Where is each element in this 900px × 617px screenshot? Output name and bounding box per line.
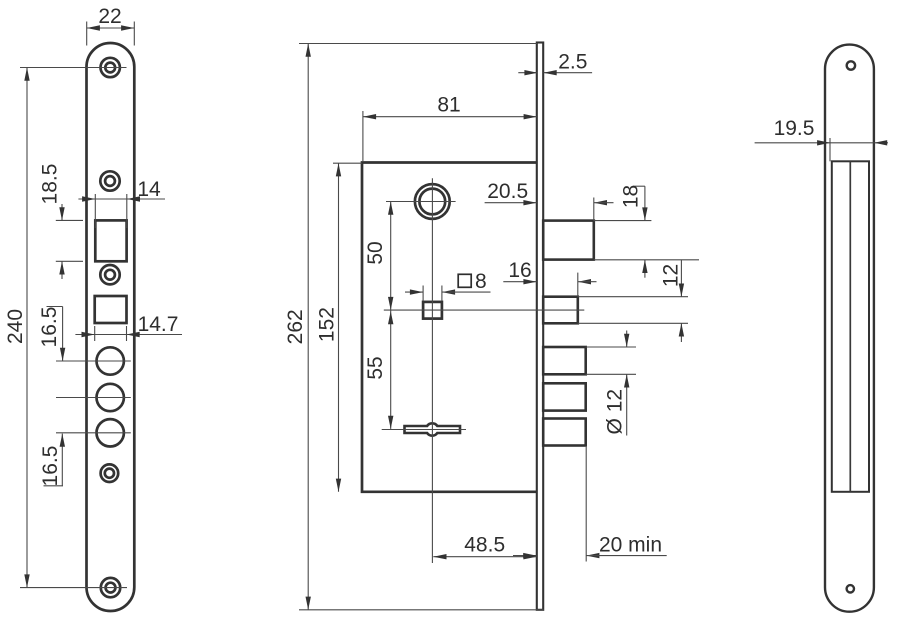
recess middle line xyxy=(849,161,851,492)
dim 16.5 upper xyxy=(47,306,63,308)
lock case recess xyxy=(832,161,869,492)
spindle centerline xyxy=(384,309,585,311)
svg-text:262: 262 xyxy=(284,309,307,344)
svg-text:152: 152 xyxy=(315,307,338,342)
key slot xyxy=(405,423,461,435)
svg-text:16: 16 xyxy=(508,259,531,282)
dim 2.5 xyxy=(518,72,537,74)
svg-text:18: 18 xyxy=(620,185,643,208)
dim 12 xyxy=(578,296,688,298)
svg-text:8: 8 xyxy=(475,270,487,293)
svg-text:12: 12 xyxy=(660,264,683,287)
dim 14.7 xyxy=(94,326,96,341)
svg-text:20.5: 20.5 xyxy=(487,180,528,203)
svg-text:22: 22 xyxy=(98,5,121,28)
svg-text:16.5: 16.5 xyxy=(39,446,62,487)
svg-text:20 min: 20 min xyxy=(599,533,662,556)
svg-text:50: 50 xyxy=(364,241,387,264)
dim 20 min xyxy=(513,555,536,557)
screw hole top (right view) xyxy=(847,61,855,69)
dim diameter 12 xyxy=(586,346,636,348)
svg-text:2.5: 2.5 xyxy=(558,51,587,74)
svg-text:48.5: 48.5 xyxy=(464,534,505,557)
svg-text:14.7: 14.7 xyxy=(138,313,179,336)
dim 16 xyxy=(503,281,536,283)
dim square 8 xyxy=(422,286,424,301)
deadbolt pin 1 xyxy=(543,347,586,374)
centerline deadbolt circle 3 xyxy=(56,432,131,434)
deadbolt pin 2 xyxy=(543,383,586,410)
dim 48.5 xyxy=(433,556,536,558)
dim 14 xyxy=(94,194,96,228)
screw hole bottom (right view) xyxy=(847,585,854,592)
key slot centerline xyxy=(382,429,466,431)
key cylinder centerline xyxy=(386,201,456,203)
screw hole 3 (left view) xyxy=(100,265,119,284)
lock body outline xyxy=(362,163,537,492)
dim 55 xyxy=(390,310,392,429)
svg-text:240: 240 xyxy=(4,309,27,344)
spindle square hole xyxy=(423,302,442,319)
dim 240 xyxy=(20,67,127,69)
latch bolt side view xyxy=(543,221,594,260)
screw hole top (left view) xyxy=(101,58,120,77)
centerline deadbolt circle 1 xyxy=(56,360,131,362)
deadbolt circle 2 xyxy=(97,384,124,411)
faceplate profile outline xyxy=(825,45,874,612)
svg-text:55: 55 xyxy=(364,356,387,379)
svg-text:18.5: 18.5 xyxy=(38,164,61,205)
svg-text:81: 81 xyxy=(437,94,460,117)
dim 152 xyxy=(333,162,362,164)
dim 262 xyxy=(299,43,537,45)
svg-text:19.5: 19.5 xyxy=(774,117,815,140)
svg-text:16.5: 16.5 xyxy=(38,307,61,348)
dim 50 xyxy=(390,202,392,311)
svg-text:Ø 12: Ø 12 xyxy=(604,389,627,435)
screw hole 4 (left view) xyxy=(101,464,119,482)
dim 18 xyxy=(594,220,652,222)
deadbolt pin 3 xyxy=(543,419,586,446)
key cylinder hole xyxy=(415,184,450,219)
faceplate front view outline xyxy=(87,43,135,611)
dim 19.5 xyxy=(755,142,888,144)
dim 16.5 lower xyxy=(61,434,63,486)
svg-text:14: 14 xyxy=(137,178,161,201)
dim 20.5 xyxy=(485,202,537,204)
dim 22 xyxy=(86,22,88,46)
centerline deadbolt circle 2 xyxy=(56,397,131,399)
deadbolt circle 3 xyxy=(97,419,124,446)
auxiliary square hole xyxy=(95,296,127,323)
faceplate edge-on strip xyxy=(537,43,543,610)
screw hole bottom (left view) xyxy=(101,578,120,597)
dim 81 xyxy=(362,111,364,162)
auxiliary bolt side view xyxy=(543,297,578,324)
vertical centerline xyxy=(431,178,433,563)
dim 18.5 xyxy=(56,219,83,221)
deadbolt circle 1 xyxy=(97,347,124,374)
screw hole 2 (left view) xyxy=(100,171,119,190)
latch square hole xyxy=(95,220,126,261)
